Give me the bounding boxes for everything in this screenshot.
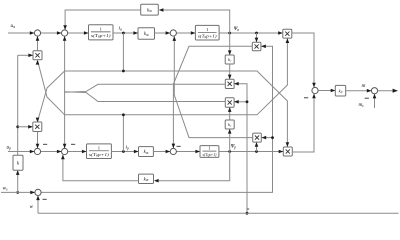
svg-text:w: w <box>30 204 34 210</box>
svg-text:s(Tgp+1): s(Tgp+1) <box>89 152 110 157</box>
svg-text:s(Tgp+1): s(Tgp+1) <box>91 33 111 38</box>
svg-text:s(Tgp+1): s(Tgp+1) <box>198 33 217 38</box>
svg-text:kΦ: kΦ <box>144 32 149 37</box>
svg-text:kΦ: kΦ <box>144 177 149 182</box>
svg-text:kΦ: kΦ <box>147 8 152 13</box>
svg-text:s(Tgp+1): s(Tgp+1) <box>203 152 217 157</box>
svg-text:w: w <box>247 206 250 211</box>
svg-text:m: m <box>362 83 366 89</box>
svg-text:kΦ: kΦ <box>144 150 149 155</box>
svg-text:kд: kд <box>339 88 343 94</box>
